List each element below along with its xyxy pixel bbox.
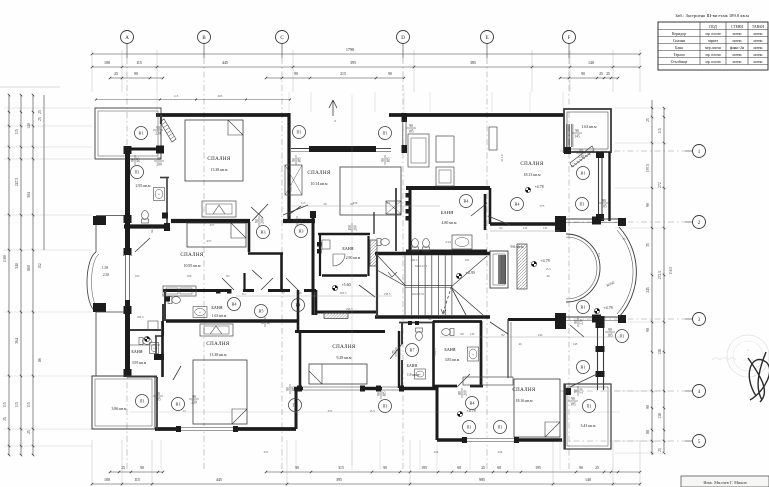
svg-text:1180: 1180 bbox=[3, 255, 7, 263]
level mark +5.60 bbox=[332, 282, 350, 291]
door tag В3 bbox=[295, 225, 308, 238]
svg-text:25: 25 bbox=[646, 118, 650, 122]
corridor wall y221 right segment bbox=[283, 219, 315, 223]
size label 75/200 bbox=[392, 347, 402, 357]
bath 1.9 shaft squares bbox=[408, 321, 412, 325]
svg-text:П1: П1 bbox=[382, 131, 387, 136]
svg-text:БАНЯ: БАНЯ bbox=[131, 349, 142, 354]
door leaf B3 right bbox=[287, 206, 301, 216]
hall wall y253 bbox=[248, 252, 283, 255]
bottom-center wall bbox=[294, 387, 437, 391]
size label 90/185 bbox=[292, 155, 302, 165]
svg-text:В1: В1 bbox=[581, 365, 586, 370]
svg-text:445: 445 bbox=[222, 60, 228, 65]
svg-text:82: 82 bbox=[226, 274, 230, 278]
svg-text:БАНЯ: БАНЯ bbox=[441, 210, 453, 215]
left outer edge upper bbox=[95, 216, 97, 252]
cabinet bedroom 10.95 bbox=[163, 286, 196, 296]
column joint blocks bbox=[124, 146, 132, 154]
bottom-center windows bbox=[303, 386, 399, 391]
level mark +4.78 bbox=[594, 305, 612, 314]
svg-text:90: 90 bbox=[192, 395, 196, 399]
svg-text:2.24: 2.24 bbox=[445, 240, 451, 244]
svg-text:143: 143 bbox=[538, 333, 543, 337]
construction lines bbox=[157, 92, 563, 470]
svg-text:985: 985 bbox=[479, 477, 485, 482]
svg-text:A: A bbox=[125, 36, 129, 41]
svg-text:90: 90 bbox=[575, 129, 579, 133]
level mark +4.78 bbox=[457, 408, 475, 417]
bottom-right terrace 3.43 bbox=[564, 384, 611, 449]
svg-text:247.5: 247.5 bbox=[15, 178, 19, 187]
svg-text:В3: В3 bbox=[261, 230, 266, 235]
size label 90/145 bbox=[572, 129, 582, 139]
svg-text:115: 115 bbox=[15, 402, 19, 408]
closet wardrobe hatch bbox=[567, 124, 573, 147]
svg-text:260.5: 260.5 bbox=[411, 258, 418, 262]
svg-text:латекс: латекс bbox=[753, 53, 763, 57]
svg-text:88: 88 bbox=[646, 430, 650, 434]
toilet bbox=[168, 297, 180, 304]
grid bubble 1 bbox=[693, 145, 706, 158]
svg-text:П1: П1 bbox=[586, 404, 591, 409]
svg-text:92: 92 bbox=[350, 202, 354, 206]
svg-text:50: 50 bbox=[323, 202, 327, 206]
svg-text:185: 185 bbox=[155, 397, 161, 401]
door tag В4 bbox=[466, 397, 479, 410]
svg-text:+5.60: +5.60 bbox=[341, 282, 350, 287]
hatched shaft bbox=[370, 240, 377, 266]
top wall right section bbox=[389, 113, 564, 117]
top extension lines bbox=[92, 50, 640, 92]
svg-text:+: + bbox=[419, 373, 421, 377]
svg-text:230: 230 bbox=[578, 154, 584, 158]
top-right closet 1.63 bbox=[564, 109, 611, 152]
svg-text:86: 86 bbox=[298, 291, 302, 295]
size label 90/185 bbox=[381, 155, 391, 165]
left strip horizontals bbox=[96, 215, 124, 217]
room label СПАЛНЯ 13.38 кв.м bbox=[207, 157, 231, 172]
svg-text:90: 90 bbox=[388, 72, 392, 76]
bath 4.80 bottom wall bbox=[406, 250, 487, 253]
svg-text:340: 340 bbox=[15, 263, 19, 269]
svg-text:90: 90 bbox=[608, 328, 612, 332]
top wall left section bbox=[156, 113, 288, 117]
svg-text:латекс: латекс bbox=[732, 53, 742, 57]
svg-text:215: 215 bbox=[340, 72, 346, 76]
svg-text:П1: П1 bbox=[382, 404, 387, 409]
svg-text:В1: В1 bbox=[176, 402, 181, 407]
closet corner block bbox=[564, 147, 571, 154]
door tag П1 bbox=[463, 421, 476, 434]
svg-text:185: 185 bbox=[386, 157, 390, 163]
svg-text:92: 92 bbox=[500, 226, 504, 230]
sink bbox=[193, 307, 207, 318]
bottom-left bottom wall bbox=[155, 427, 296, 431]
svg-text:3.85 кв.м: 3.85 кв.м bbox=[445, 358, 460, 362]
svg-text:90: 90 bbox=[579, 149, 583, 153]
svg-text:1.9 кв.м: 1.9 кв.м bbox=[407, 373, 420, 377]
svg-text:4.80 кв.м: 4.80 кв.м bbox=[442, 221, 457, 225]
grid bubble C bbox=[276, 31, 289, 44]
svg-text:3.43 кв.м: 3.43 кв.м bbox=[581, 424, 596, 428]
svg-text:3.95 кв.м: 3.95 кв.м bbox=[132, 361, 147, 365]
svg-text:82: 82 bbox=[501, 333, 505, 337]
svg-text:90: 90 bbox=[574, 389, 578, 393]
svg-text:3.86 кв.м: 3.86 кв.м bbox=[112, 407, 127, 411]
level mark +4.78 bbox=[525, 184, 543, 193]
rail right part bbox=[376, 148, 391, 150]
bottom dimension chain row 1 bbox=[109, 466, 641, 473]
right wall double lower bbox=[596, 152, 610, 221]
svg-text:П1: П1 bbox=[139, 399, 144, 404]
svg-text:П1: П1 bbox=[292, 403, 297, 408]
right wall lower window band bbox=[596, 316, 605, 390]
svg-text:195: 195 bbox=[535, 466, 541, 470]
right dimension chains bbox=[646, 100, 673, 455]
door leaf small bbox=[252, 270, 262, 279]
svg-text:2: 2 bbox=[334, 119, 336, 123]
svg-text:2.30: 2.30 bbox=[103, 273, 109, 277]
left extension lines bbox=[4, 108, 92, 446]
corridor dims bbox=[490, 230, 560, 232]
svg-text:115: 115 bbox=[658, 128, 662, 134]
grid bubble D bbox=[397, 31, 410, 44]
bench below bed bbox=[202, 201, 236, 217]
svg-text:+: + bbox=[153, 347, 155, 351]
bath 2.90 door arc bbox=[333, 254, 345, 266]
right bay bottom edge bbox=[555, 313, 626, 329]
room label СПАЛНЯ 10.95 кв.м bbox=[180, 253, 204, 268]
svg-text:П1: П1 bbox=[497, 425, 502, 430]
bed bbox=[187, 223, 246, 247]
door tag В4 bbox=[228, 298, 241, 311]
svg-text:138: 138 bbox=[658, 413, 662, 419]
svg-text:СПАЛНЯ: СПАЛНЯ bbox=[206, 342, 230, 347]
door tag П1 bbox=[293, 126, 306, 139]
svg-text:25: 25 bbox=[38, 110, 42, 114]
grid line C bbox=[281, 44, 283, 59]
svg-text:90: 90 bbox=[602, 199, 606, 203]
svg-text:18.16 кв.м: 18.16 кв.м bbox=[516, 399, 533, 403]
svg-text:мр. плочи: мр. плочи bbox=[705, 53, 720, 57]
svg-text:фаянс-2м: фаянс-2м bbox=[730, 46, 745, 50]
svg-text:200: 200 bbox=[298, 218, 302, 224]
right bay outer arc bbox=[619, 227, 636, 317]
bath 4.80 door leaf bbox=[471, 203, 487, 216]
svg-text:25: 25 bbox=[114, 72, 118, 76]
svg-text:10.95 кв.м: 10.95 кв.м bbox=[184, 264, 201, 268]
stair left wall bbox=[376, 253, 378, 317]
door tag П1 bbox=[583, 400, 596, 413]
size label 90/185 bbox=[131, 155, 141, 165]
svg-text:35: 35 bbox=[646, 243, 650, 247]
sink bbox=[415, 369, 426, 379]
svg-text:860: 860 bbox=[27, 265, 31, 271]
svg-text:ПОД: ПОД bbox=[709, 25, 717, 29]
bed bbox=[514, 379, 560, 437]
bed bbox=[309, 364, 367, 384]
bath 3.95 walls bbox=[130, 329, 161, 331]
BR closet line x508 bbox=[507, 319, 509, 378]
size label 90/230 bbox=[189, 395, 199, 405]
svg-text:П1: П1 bbox=[466, 425, 471, 430]
round stamp faint bbox=[712, 335, 769, 377]
door leaf bath 3.95 bbox=[173, 366, 181, 380]
svg-text:90: 90 bbox=[497, 466, 501, 470]
bedroom 9.28 left wall bbox=[299, 331, 302, 389]
svg-text:138: 138 bbox=[658, 349, 662, 355]
svg-text:П1: П1 bbox=[296, 130, 301, 135]
svg-text:185: 185 bbox=[408, 129, 414, 133]
door tag П1 bbox=[616, 330, 629, 343]
svg-text:1.58: 1.58 bbox=[102, 266, 108, 270]
bath 3.95 bottom wall bbox=[127, 376, 157, 378]
svg-text:152: 152 bbox=[38, 263, 42, 269]
svg-text:латекс: латекс bbox=[732, 32, 742, 36]
svg-text:13.5: 13.5 bbox=[369, 409, 375, 413]
svg-text:90: 90 bbox=[286, 387, 290, 391]
svg-text:575: 575 bbox=[540, 204, 545, 208]
svg-text:БАНЯ: БАНЯ bbox=[407, 364, 418, 368]
svg-text:Стълбище: Стълбище bbox=[671, 60, 688, 64]
door tag П1 bbox=[494, 421, 507, 434]
svg-text:315: 315 bbox=[338, 466, 344, 470]
svg-text:115: 115 bbox=[27, 402, 31, 408]
svg-text:13.38 кв.м: 13.38 кв.м bbox=[211, 168, 228, 172]
svg-text:77: 77 bbox=[281, 291, 285, 295]
svg-text:203: 203 bbox=[218, 94, 223, 98]
bath 2.90 sink bbox=[322, 240, 330, 249]
signature pen strokes bbox=[748, 352, 769, 402]
door tag П1 bbox=[136, 395, 149, 408]
svg-text:90: 90 bbox=[409, 124, 413, 128]
door leaf bedroom13.38 lower bbox=[252, 204, 268, 221]
toilet bbox=[377, 239, 389, 246]
svg-text:100: 100 bbox=[104, 60, 110, 65]
size label 90/230 bbox=[574, 386, 584, 396]
inner dim chains bbox=[130, 95, 620, 465]
svg-text:200: 200 bbox=[353, 225, 357, 231]
svg-text:115: 115 bbox=[136, 60, 142, 65]
left bay column stubs bbox=[93, 216, 106, 225]
hall wall x249 bbox=[248, 222, 251, 252]
svg-text:200: 200 bbox=[463, 390, 467, 396]
cabinet before bed BR bbox=[463, 377, 513, 385]
corridor wall west segment bbox=[124, 224, 170, 228]
svg-text:395: 395 bbox=[336, 477, 342, 482]
svg-text:90: 90 bbox=[646, 203, 650, 207]
wall connector x404 with window bbox=[402, 113, 408, 153]
svg-text:86: 86 bbox=[38, 358, 42, 362]
svg-text:115: 115 bbox=[3, 402, 7, 408]
bottom-right bottom wall bbox=[437, 438, 562, 442]
door tag П1 bbox=[576, 198, 589, 211]
svg-text:272.5: 272.5 bbox=[658, 271, 662, 280]
door tag П1 bbox=[379, 400, 392, 413]
svg-text:395: 395 bbox=[350, 60, 356, 65]
grid line 4 bbox=[685, 390, 693, 392]
svg-text:25: 25 bbox=[3, 417, 7, 421]
sink bbox=[154, 188, 165, 201]
svg-text:2.95 кв.м: 2.95 кв.м bbox=[136, 184, 151, 188]
svg-text:100: 100 bbox=[104, 477, 110, 482]
svg-text:230: 230 bbox=[155, 131, 161, 135]
svg-text:230: 230 bbox=[579, 388, 583, 394]
door tag В5 bbox=[255, 305, 268, 318]
corridor door leaf bbox=[490, 322, 508, 334]
top-left terrace bbox=[95, 108, 161, 159]
toilet bbox=[412, 239, 419, 251]
door tag В4 bbox=[292, 299, 305, 312]
north arrow bbox=[329, 100, 337, 116]
svg-text:13: 13 bbox=[182, 409, 186, 413]
overall top dimension line 1790 bbox=[91, 47, 641, 55]
svg-text:230: 230 bbox=[191, 400, 197, 404]
svg-text:Заб.: Застроено ІІІ-ви етаж 18: Заб.: Застроено ІІІ-ви етаж 189.0 кв.м bbox=[675, 13, 749, 18]
door tag П1 bbox=[131, 166, 144, 179]
bed bbox=[185, 120, 243, 181]
black block joint bbox=[162, 213, 168, 219]
svg-text:В1: В1 bbox=[581, 171, 586, 176]
svg-text:СТЕНИ: СТЕНИ bbox=[731, 25, 743, 29]
svg-text:БАНЯ: БАНЯ bbox=[211, 305, 222, 310]
svg-text:90: 90 bbox=[579, 466, 583, 470]
svg-text:90: 90 bbox=[140, 466, 144, 470]
stairwell top wall bbox=[375, 252, 490, 255]
bath 4.80 top wall bbox=[406, 186, 490, 190]
grid bubble A bbox=[121, 31, 134, 44]
left outer edge lower bbox=[95, 312, 97, 376]
bath 1.63 bottom wall bbox=[166, 319, 298, 322]
hall wall x281 bbox=[280, 253, 283, 289]
french window black sill bedroom 10.14 bbox=[309, 146, 376, 152]
svg-text:102.5: 102.5 bbox=[136, 315, 144, 319]
size label 90/185 bbox=[605, 328, 615, 338]
svg-text:135: 135 bbox=[470, 332, 475, 336]
svg-text:25: 25 bbox=[27, 430, 31, 434]
svg-text:140: 140 bbox=[588, 60, 594, 65]
svg-text:25: 25 bbox=[606, 72, 610, 76]
door tag В4 bbox=[511, 198, 524, 211]
left curved bay outer arc bbox=[87, 252, 96, 312]
svg-text:90: 90 bbox=[294, 72, 298, 76]
hall lower wall y290 bbox=[163, 289, 316, 292]
svg-text:1.63 кв.м: 1.63 кв.м bbox=[212, 314, 227, 318]
size label 90/185 bbox=[599, 199, 609, 209]
svg-text:90: 90 bbox=[255, 219, 259, 223]
svg-text:251: 251 bbox=[264, 450, 269, 454]
bottom extension lines bbox=[92, 440, 640, 486]
svg-text:224: 224 bbox=[498, 450, 503, 454]
svg-text:В5: В5 bbox=[259, 309, 264, 314]
sink bbox=[468, 347, 479, 361]
toilet bbox=[442, 329, 454, 336]
grid line B bbox=[203, 44, 205, 59]
svg-text:латекс: латекс bbox=[753, 39, 763, 43]
svg-text:18.13 кв.м: 18.13 кв.м bbox=[524, 173, 541, 177]
svg-text:46: 46 bbox=[546, 274, 550, 278]
svg-text:364: 364 bbox=[15, 338, 19, 344]
door leaf 10.95 bbox=[135, 238, 150, 252]
size label 80/200 bbox=[458, 388, 468, 398]
bath 2.95 top wall bbox=[124, 148, 157, 151]
room label СПАЛНЯ 9.28 кв.м bbox=[332, 345, 356, 360]
svg-text:185: 185 bbox=[136, 157, 140, 163]
svg-text:90: 90 bbox=[156, 392, 160, 396]
svg-text:СПАЛНЯ: СПАЛНЯ bbox=[207, 157, 231, 162]
stairwell bottom wall bbox=[375, 315, 490, 318]
size label 80/185 bbox=[261, 317, 271, 327]
svg-text:П1: П1 bbox=[134, 170, 139, 175]
top dimension chain row 2 bbox=[91, 60, 641, 68]
hall wall x313 bbox=[312, 212, 315, 315]
shaft squares above bath strip bbox=[216, 289, 221, 294]
svg-text:мер.плочи: мер.плочи bbox=[705, 46, 721, 50]
grid line E bbox=[486, 44, 488, 59]
svg-text:В3: В3 bbox=[299, 229, 304, 234]
WC walls bbox=[373, 212, 375, 234]
size label 90/185 bbox=[286, 384, 296, 394]
svg-text:90: 90 bbox=[460, 332, 464, 336]
door leaf BR right bbox=[570, 374, 597, 387]
size label 90/200 bbox=[255, 216, 265, 226]
svg-text:90: 90 bbox=[646, 328, 650, 332]
bath 1.9 walls bbox=[399, 321, 434, 388]
right bay top edge bbox=[555, 216, 626, 232]
terrace left wall bbox=[564, 384, 566, 449]
svg-text:185: 185 bbox=[266, 319, 270, 325]
svg-text:2.90 кв.м: 2.90 кв.м bbox=[346, 256, 361, 260]
grid bubble 2 bbox=[693, 216, 706, 229]
svg-text:8.3: 8.3 bbox=[386, 201, 390, 205]
grid bubble E bbox=[481, 31, 494, 44]
bottom dimension chain row 2 bbox=[91, 477, 641, 485]
svg-text:185: 185 bbox=[570, 402, 576, 406]
svg-text:25: 25 bbox=[481, 466, 485, 470]
bed bbox=[340, 167, 401, 215]
grid bubble F bbox=[563, 31, 576, 44]
svg-text:8.1: 8.1 bbox=[242, 292, 246, 296]
toilet bbox=[423, 239, 430, 251]
bath 4.80 squares on wall bbox=[406, 193, 411, 198]
bath 3.85 door leaf bbox=[457, 374, 470, 387]
svg-text:224: 224 bbox=[434, 450, 439, 454]
size label 90/185 bbox=[568, 397, 578, 407]
svg-text:СПАЛНЯ: СПАЛНЯ bbox=[332, 345, 356, 350]
radiator below bath strip bbox=[200, 324, 233, 336]
toilet bbox=[416, 328, 423, 340]
svg-text:90: 90 bbox=[157, 157, 161, 161]
wall x298 hall side bbox=[297, 290, 300, 331]
bath 2.90 walls bbox=[318, 234, 370, 276]
svg-text:латекс: латекс bbox=[753, 60, 763, 64]
door tag В7 bbox=[406, 344, 419, 357]
bedroom 9.28 right wall bbox=[398, 331, 400, 388]
grid line 1 bbox=[685, 150, 693, 152]
svg-text:211.9: 211.9 bbox=[500, 154, 504, 161]
toilet bbox=[142, 211, 149, 223]
svg-text:304: 304 bbox=[27, 192, 31, 198]
door tag В4 bbox=[460, 195, 473, 208]
stair door leaf left bbox=[359, 285, 375, 297]
right extension lines bbox=[615, 108, 668, 453]
wall x316 segment bbox=[315, 290, 318, 315]
window in left column wall bbox=[124, 255, 130, 300]
wall y312 with niche bbox=[316, 311, 377, 314]
svg-text:25: 25 bbox=[595, 466, 599, 470]
bedroom 9.28 top wall bbox=[295, 330, 385, 333]
